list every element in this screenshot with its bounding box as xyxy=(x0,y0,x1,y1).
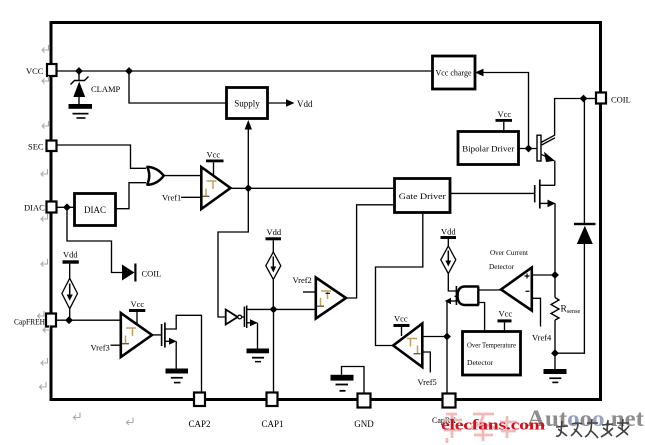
wire VCC rail to Vcc charge xyxy=(57,70,433,72)
current source I3 (Vdd, over-current pull) xyxy=(441,227,457,274)
svg-text:GND: GND xyxy=(354,419,374,429)
transistor Q5 (pull device) xyxy=(445,274,457,337)
svg-text:Vdd: Vdd xyxy=(63,250,78,260)
wire Supply enable input (arrow up from comparator U3 output node) xyxy=(245,120,252,188)
label Vref2 and top input stub xyxy=(293,275,316,292)
block Over Temperature Detector U13 xyxy=(463,332,521,376)
node DIAC junction xyxy=(63,203,71,211)
svg-text:Vref1: Vref1 xyxy=(162,193,181,203)
pin DIAC xyxy=(24,202,57,213)
wire Cd node to pin Cd xyxy=(446,337,448,394)
pin GND xyxy=(354,394,374,430)
wire SEC to OR gate input xyxy=(57,145,147,168)
pin COIL xyxy=(596,93,631,105)
svg-text:CAP1: CAP1 xyxy=(261,419,283,429)
diode D1 to COIL xyxy=(122,264,161,282)
block Supply U2 xyxy=(227,88,268,119)
svg-text:elecfans.com: elecfans.com xyxy=(441,418,546,434)
node sense junction xyxy=(551,271,559,279)
node COIL junction xyxy=(580,95,588,103)
op-amp U12 (restart comparator, points left, Vref5) xyxy=(393,324,422,368)
wire Gate Driver output to Q2 gate xyxy=(450,192,534,194)
block Vcc charge U8 xyxy=(433,56,476,89)
watermark pink chars (behind elecfans) xyxy=(443,414,517,443)
wire U11 inverting input to Vref4 xyxy=(532,298,552,342)
wire sense node to over-current comparator xyxy=(532,274,555,276)
wire COIL pin xyxy=(584,98,597,100)
svg-text:Vref3: Vref3 xyxy=(91,343,110,353)
svg-text:Gate Driver: Gate Driver xyxy=(399,191,446,201)
ground under CLAMP xyxy=(69,104,93,119)
wire CapFREH pin to comparator U5 xyxy=(56,319,121,321)
block Gate Driver U7 xyxy=(395,179,451,213)
op-amp U5 (CapFREH comparator, Vref3) xyxy=(121,313,152,357)
power Vcc of U5 xyxy=(129,299,145,324)
wire U5 output to Q3 gate xyxy=(152,334,161,336)
svg-text:Vdd: Vdd xyxy=(441,227,456,237)
and-gate G2 (points left) xyxy=(455,286,479,305)
pin CapFREH xyxy=(14,314,56,327)
wire Cd node to comparator U12 input xyxy=(422,336,447,338)
wire AND gate second input from Over Temperature Detector xyxy=(478,303,485,332)
svg-text:SEC: SEC xyxy=(28,142,44,152)
wire Bipolar Driver output to Q1 base xyxy=(519,148,538,150)
label Over Current Detector xyxy=(489,248,529,271)
chip boundary box xyxy=(51,23,601,400)
wire U12 output to Gate Driver bottom port xyxy=(376,213,423,346)
ground at GND pin xyxy=(331,375,354,392)
wire COIL node to Q1 collector xyxy=(555,99,584,136)
ground under Q4 xyxy=(247,349,270,363)
wire Q4 drain to comparator U4 input xyxy=(247,308,316,310)
svg-text:Vcc: Vcc xyxy=(207,150,221,160)
svg-text:COIL: COIL xyxy=(611,95,631,105)
wire GND pin to internal ground xyxy=(342,367,365,394)
wire U3 output node down to inverter input xyxy=(218,188,248,317)
svg-text:Detector: Detector xyxy=(489,262,514,271)
svg-text:CLAMP: CLAMP xyxy=(91,84,121,94)
svg-text:Over Current: Over Current xyxy=(490,248,529,257)
zener diode CLAMP xyxy=(71,71,89,104)
wire Vcc charge input arrow from base node riser xyxy=(475,69,529,149)
node U3 output junction xyxy=(244,184,252,192)
wire Supply output to Vdd xyxy=(268,99,313,109)
svg-text:VCC: VCC xyxy=(26,66,44,76)
svg-text:Vcc charge: Vcc charge xyxy=(436,69,472,78)
block Bipolar Driver U10 xyxy=(458,132,519,165)
power Vcc of Over Temperature Detector xyxy=(498,309,513,332)
block DIAC U9 xyxy=(75,194,116,226)
svg-text:Vdd: Vdd xyxy=(297,99,313,109)
power Vcc of Bipolar Driver xyxy=(496,109,513,132)
current source I1 (Vdd, CapFREH) xyxy=(62,250,79,321)
svg-text:Vcc: Vcc xyxy=(131,299,145,309)
node CAP1 junction xyxy=(270,306,278,314)
node ground junction xyxy=(551,349,559,357)
svg-text:Vdd: Vdd xyxy=(267,227,282,237)
transistor Q3 (NMOS, CAP2 discharge) xyxy=(162,315,202,392)
pin CAP1 xyxy=(261,393,283,430)
svg-text:Vref4: Vref4 xyxy=(532,333,552,343)
wire to Supply input xyxy=(129,71,227,103)
svg-text:Supply: Supply xyxy=(234,99,260,109)
svg-text:Vcc: Vcc xyxy=(498,109,512,119)
or-gate G1 xyxy=(147,167,164,186)
svg-text:DIAC: DIAC xyxy=(24,203,45,213)
node CapFREH junction xyxy=(65,316,73,324)
op-amp U4 (Vref2 comparator) xyxy=(316,278,346,319)
op-amp U11 (over-current comparator, points left) xyxy=(501,268,532,311)
svg-text:CAP2: CAP2 xyxy=(188,419,210,429)
power Vcc of U3 xyxy=(206,150,224,177)
wire OR output to comparator U3 + input xyxy=(164,175,201,177)
svg-text:Bipolar Driver: Bipolar Driver xyxy=(462,144,514,154)
pin Cd xyxy=(432,394,456,426)
node Cd junction xyxy=(443,333,451,341)
node VCC-supply junction xyxy=(125,67,133,75)
current source I2 (Vdd, CAP1) xyxy=(266,227,282,309)
watermark chinese script (bottom right) xyxy=(556,419,629,438)
transistor Q2 (output MOSFET) xyxy=(535,180,556,276)
op-amp U3 (Schmitt comparator, Vref1) xyxy=(201,167,230,209)
svg-text:COIL: COIL xyxy=(142,269,162,279)
wire DIAC node to COIL sense diode xyxy=(67,207,122,272)
ground under Rsense xyxy=(544,353,567,383)
wire U4 output to Gate Driver second input xyxy=(346,205,395,298)
wire DIAC pin to DIAC block xyxy=(57,206,75,208)
svg-text:DIAC: DIAC xyxy=(84,205,106,215)
inverter U6 xyxy=(226,310,244,325)
pin VCC xyxy=(26,64,57,76)
wire DIAC block output to OR gate input xyxy=(116,183,147,209)
svg-text:Over Temperature: Over Temperature xyxy=(467,341,517,350)
node base junction xyxy=(525,145,533,153)
pin CAP2 xyxy=(188,393,210,430)
svg-text:Vref5: Vref5 xyxy=(418,377,437,387)
label Vref1 and inverting input wire xyxy=(162,193,201,203)
svg-text:CapFREH: CapFREH xyxy=(14,318,45,327)
ground under Q3 xyxy=(166,369,189,384)
svg-text:Vcc: Vcc xyxy=(499,309,513,319)
node VCC-clamp junction xyxy=(75,67,83,75)
paragraph marks (margin) xyxy=(38,45,134,425)
transistor Q1 (bipolar output) xyxy=(537,135,555,185)
svg-text:Vref2: Vref2 xyxy=(293,275,312,285)
diode D2 (freewheel to COIL) xyxy=(555,99,596,354)
resistor Rsense xyxy=(551,275,580,353)
pin SEC xyxy=(28,141,57,152)
svg-text:Detector: Detector xyxy=(467,358,494,367)
wire CAP1 node down to CAP1 pin xyxy=(273,309,275,392)
label Vref3 and inverting input wire xyxy=(91,343,121,353)
transistor Q4 (NMOS, CAP1 discharge) xyxy=(244,306,257,349)
wire U12 inverting input to Vref5 xyxy=(418,352,437,387)
power Vcc of U12 xyxy=(394,314,410,337)
svg-text:Vcc: Vcc xyxy=(394,314,408,324)
wire U11 output to AND gate xyxy=(478,289,501,291)
wire U3 output to Gate Driver xyxy=(231,187,395,189)
